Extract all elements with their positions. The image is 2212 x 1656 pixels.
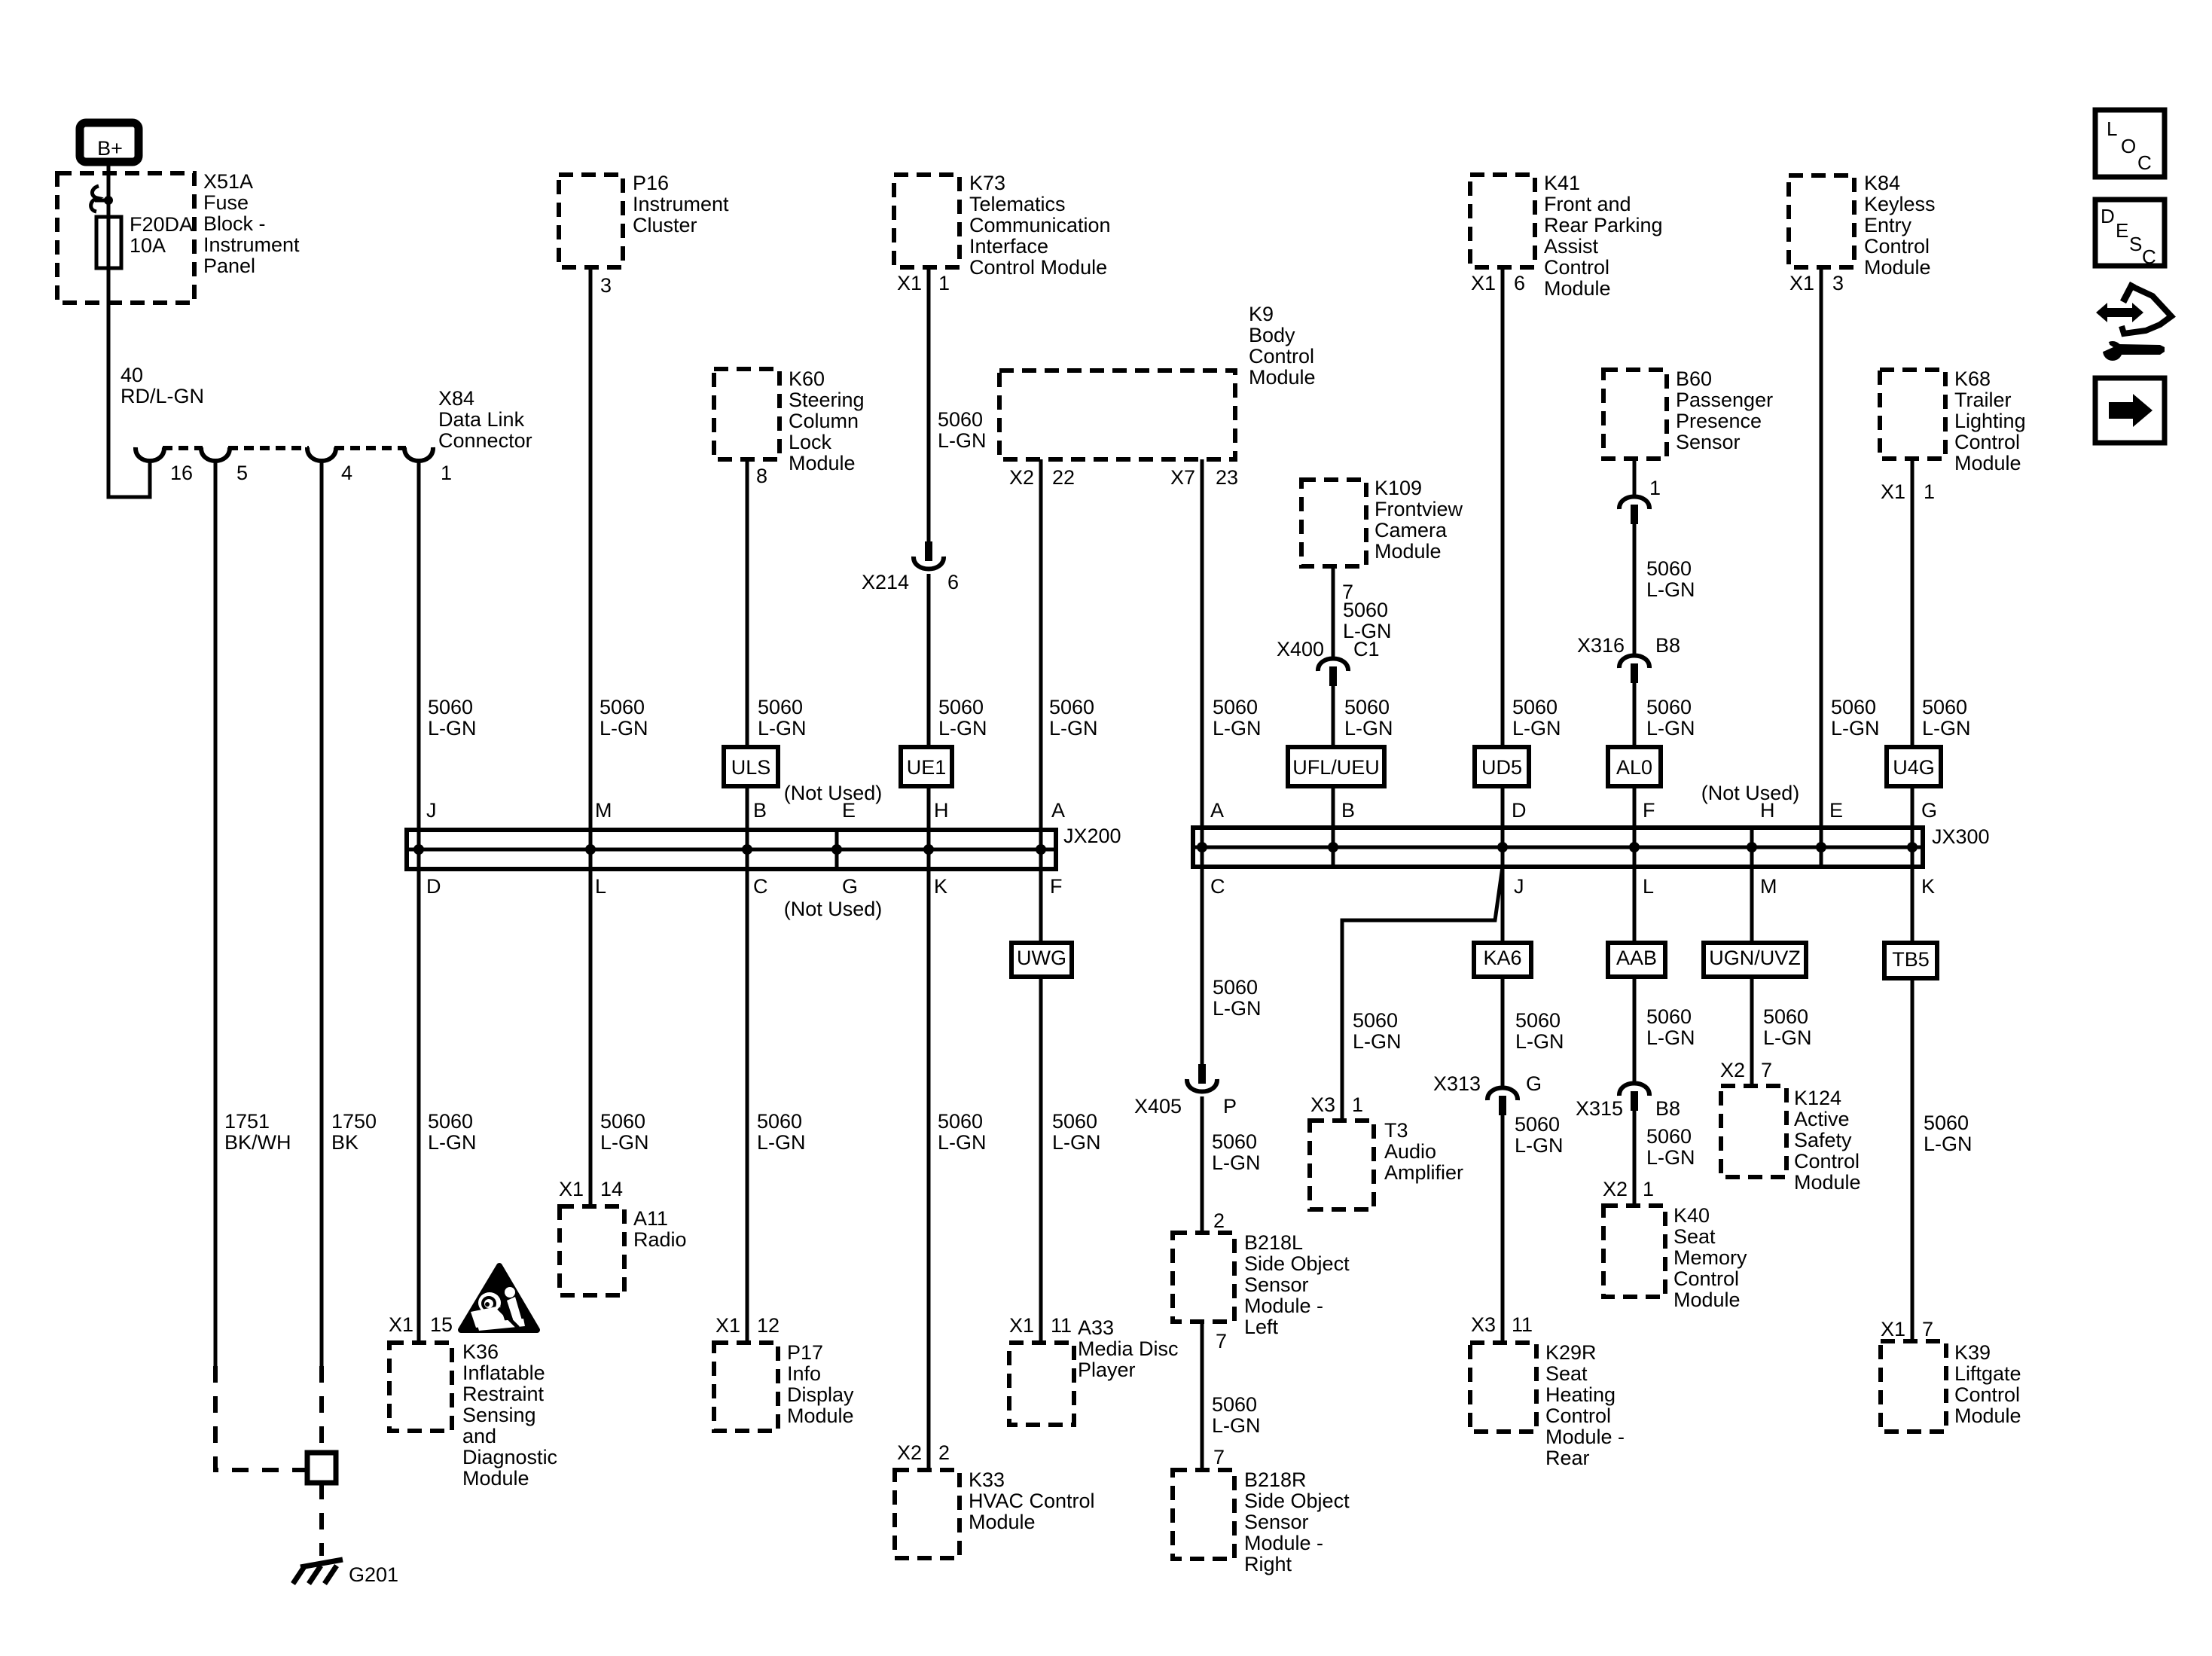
- module K29R Seat Heating Control Module - Rear dashed box: [1470, 1343, 1536, 1432]
- module A11 Radio dashed box: [560, 1206, 624, 1295]
- svg-text:Control: Control: [1954, 1383, 2020, 1406]
- svg-text:P: P: [1223, 1095, 1237, 1118]
- ground G201 symbol: [301, 1560, 343, 1567]
- svg-text:M: M: [1760, 875, 1777, 898]
- svg-text:22: 22: [1052, 466, 1075, 489]
- svg-text:X214: X214: [862, 571, 909, 593]
- svg-text:K: K: [1921, 875, 1935, 898]
- wire from X214 to JX200 H: [927, 574, 931, 830]
- svg-text:D: D: [426, 875, 441, 898]
- wire 1750 BK from X84 pin 4: [320, 462, 324, 1366]
- svg-text:1750: 1750: [331, 1110, 377, 1133]
- svg-text:Safety: Safety: [1794, 1129, 1852, 1151]
- svg-text:Sensing: Sensing: [462, 1404, 536, 1426]
- wire from K9 X2-22 to JX200 A: [1039, 459, 1043, 830]
- inline connector X315 pin B8: [1619, 1084, 1649, 1096]
- junction dot JX300 D: [1497, 842, 1508, 852]
- svg-text:Info: Info: [787, 1362, 821, 1385]
- svg-text:Sensor: Sensor: [1244, 1273, 1309, 1296]
- svg-text:K60: K60: [789, 367, 825, 390]
- JX200 stub A: [1039, 830, 1043, 869]
- inline connector X400 pin C1: [1318, 659, 1348, 672]
- svg-text:L-GN: L-GN: [1212, 1414, 1261, 1437]
- net label box UFL/UEU: [1288, 747, 1384, 786]
- JX300 stub D: [1501, 828, 1505, 867]
- svg-text:K9: K9: [1249, 303, 1274, 325]
- svg-text:L-GN: L-GN: [1353, 1030, 1402, 1053]
- svg-text:7: 7: [1216, 1330, 1227, 1353]
- svg-text:X1: X1: [1009, 1314, 1034, 1337]
- svg-text:L-GN: L-GN: [600, 1131, 649, 1154]
- wire from K84 to JX300 E: [1820, 267, 1823, 828]
- svg-text:1751: 1751: [224, 1110, 270, 1133]
- svg-text:5060: 5060: [1213, 976, 1258, 999]
- svg-text:Module: Module: [1374, 540, 1442, 563]
- svg-text:Module: Module: [1954, 1404, 2021, 1427]
- svg-text:Entry: Entry: [1864, 214, 1912, 236]
- svg-text:Lock: Lock: [789, 431, 832, 453]
- JX200 stub B: [746, 830, 749, 869]
- svg-text:L-GN: L-GN: [600, 717, 648, 740]
- svg-text:3: 3: [600, 274, 612, 297]
- junction dot in fuse block: [104, 196, 113, 205]
- svg-text:A: A: [1210, 799, 1224, 822]
- svg-text:B218R: B218R: [1244, 1468, 1307, 1491]
- svg-text:Control: Control: [1249, 345, 1314, 367]
- JX300 stub E: [1820, 828, 1823, 867]
- svg-text:Module: Module: [1249, 366, 1316, 389]
- svg-text:Module: Module: [1794, 1171, 1861, 1194]
- svg-text:B60: B60: [1676, 367, 1712, 390]
- svg-text:7: 7: [1213, 1446, 1225, 1468]
- svg-text:Interface: Interface: [969, 235, 1048, 258]
- svg-text:Restraint: Restraint: [462, 1383, 545, 1405]
- svg-text:D: D: [1512, 799, 1527, 822]
- fuse F20DA 10A: [96, 217, 121, 268]
- wire 1751 BK/WH from X84 pin 5: [214, 462, 218, 1366]
- module K39 Liftgate Control Module dashed box: [1881, 1341, 1946, 1432]
- module P16 Instrument Cluster dashed box: [559, 175, 623, 267]
- connector X84 pin 1 cup: [404, 447, 433, 461]
- svg-text:K68: K68: [1954, 367, 1991, 390]
- JX200 stub M: [589, 830, 593, 869]
- svg-text:C: C: [753, 875, 768, 898]
- svg-text:7: 7: [1922, 1318, 1933, 1340]
- svg-text:K40: K40: [1673, 1204, 1710, 1227]
- svg-text:F20DA: F20DA: [130, 213, 193, 236]
- svg-text:X3: X3: [1310, 1093, 1335, 1116]
- svg-text:5060: 5060: [1212, 1130, 1257, 1153]
- junction dot JX200 M: [585, 844, 596, 855]
- junction block JX300 bus bar: [1193, 828, 1923, 867]
- svg-text:5060: 5060: [757, 1110, 802, 1133]
- svg-text:Lighting: Lighting: [1954, 410, 2026, 432]
- svg-text:5060: 5060: [1922, 696, 1967, 718]
- hidden wire 1750 to splice: [319, 1366, 324, 1453]
- junction block JX200 bus bar: [407, 830, 1056, 869]
- svg-text:Inflatable: Inflatable: [462, 1362, 545, 1384]
- connector X84 pin 5 cup: [201, 447, 230, 461]
- svg-text:KA6: KA6: [1483, 947, 1521, 969]
- svg-text:Control: Control: [1544, 256, 1609, 279]
- wire from X313 to K29R: [1501, 1115, 1505, 1343]
- wire from K73 to connector X214: [927, 267, 931, 543]
- hidden wire splice to ground: [319, 1483, 324, 1556]
- svg-text:X3: X3: [1471, 1313, 1496, 1336]
- net label box UGN/UVZ: [1704, 943, 1806, 977]
- net label box AL0: [1608, 747, 1661, 786]
- svg-text:E: E: [1829, 799, 1843, 822]
- module K33 HVAC Control Module dashed box: [895, 1470, 960, 1558]
- wire from K109 to connector X400: [1332, 566, 1335, 658]
- svg-text:L-GN: L-GN: [1646, 1026, 1695, 1049]
- svg-text:L-GN: L-GN: [1512, 717, 1561, 740]
- net label box UE1: [901, 747, 952, 786]
- svg-text:Control: Control: [1864, 235, 1930, 258]
- wire from B218L to B218R: [1201, 1322, 1204, 1470]
- svg-text:Control: Control: [1545, 1404, 1611, 1427]
- legend icon LOC box: [2095, 110, 2165, 177]
- wire JX300 J to KA6 and K29R: [1501, 867, 1505, 1087]
- svg-text:1: 1: [938, 272, 950, 294]
- svg-text:16: 16: [170, 462, 193, 484]
- svg-text:6: 6: [947, 571, 959, 593]
- svg-text:Connector: Connector: [438, 429, 532, 452]
- svg-text:K29R: K29R: [1545, 1341, 1597, 1364]
- svg-text:Rear: Rear: [1545, 1447, 1590, 1469]
- wire JX300 M to K124: [1750, 867, 1754, 1086]
- svg-text:X405: X405: [1134, 1095, 1182, 1118]
- svg-text:Module: Module: [1864, 256, 1931, 279]
- svg-text:Instrument: Instrument: [633, 193, 729, 215]
- wire from B+ through fuse down to X84 pin 16: [108, 164, 150, 497]
- svg-text:Side Object: Side Object: [1244, 1252, 1350, 1275]
- svg-text:X2: X2: [1720, 1059, 1745, 1081]
- svg-text:Telematics: Telematics: [969, 193, 1066, 215]
- splice block: [307, 1453, 336, 1483]
- svg-text:8: 8: [756, 465, 767, 487]
- svg-text:C: C: [2142, 246, 2156, 268]
- svg-text:L-GN: L-GN: [1922, 717, 1971, 740]
- svg-text:G201: G201: [349, 1563, 398, 1586]
- JX300 stub G: [1911, 828, 1915, 867]
- svg-text:Cluster: Cluster: [633, 214, 697, 236]
- svg-text:Assist: Assist: [1544, 235, 1599, 258]
- svg-text:K109: K109: [1374, 477, 1422, 499]
- svg-text:X1: X1: [1881, 1318, 1905, 1340]
- junction dot JX200 E: [831, 844, 842, 855]
- svg-text:X1: X1: [715, 1314, 740, 1337]
- svg-text:(Not Used): (Not Used): [784, 898, 883, 920]
- svg-text:5060: 5060: [938, 696, 984, 718]
- module A33 Media Disc Player dashed box: [1009, 1343, 1074, 1425]
- legend icon DESC box: [2095, 200, 2165, 266]
- svg-text:5060: 5060: [1646, 696, 1692, 718]
- svg-text:6: 6: [1514, 272, 1525, 294]
- svg-text:Instrument: Instrument: [203, 233, 300, 256]
- svg-text:Block -: Block -: [203, 212, 266, 235]
- svg-text:A33: A33: [1078, 1316, 1114, 1339]
- svg-text:L-GN: L-GN: [428, 1131, 477, 1154]
- wire from X405 to B218L: [1201, 1096, 1204, 1233]
- svg-text:ULS: ULS: [731, 756, 771, 779]
- inline connector X214 pin 6: [925, 541, 932, 561]
- net label box U4G: [1887, 747, 1941, 786]
- svg-text:Presence: Presence: [1676, 410, 1762, 432]
- svg-text:L-GN: L-GN: [1515, 1030, 1564, 1053]
- svg-text:L-GN: L-GN: [1515, 1134, 1564, 1157]
- svg-text:BK/WH: BK/WH: [224, 1131, 291, 1154]
- svg-text:23: 23: [1216, 466, 1238, 489]
- svg-text:P17: P17: [787, 1341, 823, 1364]
- svg-text:11: 11: [1051, 1314, 1072, 1337]
- svg-text:L-GN: L-GN: [938, 717, 987, 740]
- svg-text:Module: Module: [1954, 452, 2021, 474]
- svg-text:5060: 5060: [1212, 1393, 1257, 1416]
- svg-text:Module: Module: [789, 452, 856, 474]
- svg-text:5060: 5060: [1646, 1005, 1692, 1028]
- svg-text:X1: X1: [897, 272, 922, 294]
- svg-text:B218L: B218L: [1244, 1231, 1303, 1254]
- module K109 Frontview Camera Module dashed box: [1301, 480, 1366, 566]
- wire from X315 to K40: [1633, 1111, 1637, 1206]
- module K40 Seat Memory Control Module dashed box: [1603, 1206, 1665, 1297]
- svg-text:5060: 5060: [938, 1110, 983, 1133]
- svg-text:Diagnostic: Diagnostic: [462, 1446, 557, 1468]
- svg-text:5060: 5060: [1515, 1113, 1560, 1136]
- svg-text:L-GN: L-GN: [1646, 1146, 1695, 1169]
- svg-text:L-GN: L-GN: [428, 717, 477, 740]
- svg-text:P16: P16: [633, 172, 669, 194]
- svg-text:X7: X7: [1170, 466, 1195, 489]
- svg-text:Right: Right: [1244, 1553, 1292, 1575]
- svg-text:BK: BK: [331, 1131, 358, 1154]
- svg-text:Radio: Radio: [633, 1228, 687, 1251]
- svg-text:5060: 5060: [1924, 1112, 1969, 1134]
- svg-text:1: 1: [1352, 1093, 1363, 1116]
- module K84 Keyless Entry Control Module dashed box: [1789, 175, 1854, 267]
- svg-text:Control: Control: [1954, 431, 2020, 453]
- svg-text:UE1: UE1: [907, 756, 947, 779]
- svg-text:40: 40: [121, 364, 143, 386]
- svg-text:X1: X1: [389, 1313, 413, 1336]
- svg-text:Frontview: Frontview: [1374, 498, 1463, 520]
- module K36 Inflatable Restraint SDM dashed box: [389, 1343, 452, 1431]
- JX300 stub A: [1201, 828, 1204, 867]
- svg-text:5060: 5060: [1763, 1005, 1808, 1028]
- JX200 stub H: [927, 830, 931, 869]
- net label box UD5: [1475, 747, 1529, 786]
- junction dot JX200 H: [923, 844, 934, 855]
- svg-text:B: B: [753, 799, 767, 822]
- JX200 stub J: [417, 830, 421, 869]
- svg-text:UFL/UEU: UFL/UEU: [1292, 756, 1380, 779]
- svg-text:3: 3: [1832, 272, 1844, 294]
- svg-text:12: 12: [757, 1314, 780, 1337]
- svg-text:1: 1: [1643, 1178, 1654, 1200]
- svg-text:5060: 5060: [1052, 1110, 1097, 1133]
- svg-text:Body: Body: [1249, 324, 1295, 346]
- svg-text:K84: K84: [1864, 172, 1900, 194]
- svg-text:5060: 5060: [1344, 696, 1390, 718]
- svg-text:Trailer: Trailer: [1954, 389, 2012, 411]
- junction dot JX200 A: [1036, 844, 1046, 855]
- wire from P16 pin 3 to JX200 M: [589, 267, 593, 830]
- svg-text:J: J: [426, 799, 437, 822]
- svg-text:Left: Left: [1244, 1316, 1279, 1338]
- svg-text:L-GN: L-GN: [1344, 717, 1393, 740]
- wire JX300 J branch to T3 audio amplifier: [1342, 867, 1503, 1121]
- svg-text:U4G: U4G: [1893, 756, 1935, 779]
- svg-text:Display: Display: [787, 1383, 854, 1406]
- svg-text:Liftgate: Liftgate: [1954, 1362, 2021, 1385]
- wire from K41 to JX300 D: [1501, 267, 1505, 828]
- svg-text:X1: X1: [1881, 480, 1905, 503]
- svg-text:UWG: UWG: [1017, 947, 1066, 969]
- svg-text:TB5: TB5: [1892, 948, 1930, 971]
- svg-text:10A: 10A: [130, 234, 166, 257]
- junction dot JX300 F: [1629, 842, 1640, 852]
- junction dot JX300 G: [1907, 842, 1918, 852]
- svg-text:K39: K39: [1954, 1341, 1991, 1364]
- svg-text:5060: 5060: [428, 696, 473, 718]
- svg-text:11: 11: [1512, 1313, 1533, 1336]
- svg-text:Heating: Heating: [1545, 1383, 1616, 1406]
- svg-text:Control: Control: [1673, 1267, 1739, 1290]
- svg-text:L-GN: L-GN: [1831, 717, 1880, 740]
- wire JX300 K to K39: [1911, 867, 1915, 1341]
- svg-text:RD/L-GN: RD/L-GN: [121, 385, 204, 407]
- JX300 stub H (not used): [1750, 828, 1754, 867]
- module B218R Side Object Sensor Module - Right dashed box: [1173, 1470, 1234, 1559]
- svg-text:L: L: [595, 875, 606, 898]
- wire JX300 L to K40: [1633, 867, 1637, 1083]
- svg-text:1: 1: [1924, 480, 1935, 503]
- svg-text:K: K: [934, 875, 947, 898]
- svg-text:Player: Player: [1078, 1359, 1136, 1381]
- JX300 stub F: [1633, 828, 1637, 867]
- svg-text:Column: Column: [789, 410, 859, 432]
- svg-text:Amplifier: Amplifier: [1384, 1161, 1463, 1184]
- junction dot JX300 E: [1816, 842, 1826, 852]
- svg-text:5060: 5060: [938, 408, 983, 431]
- svg-text:2: 2: [1213, 1209, 1225, 1232]
- svg-text:Module -: Module -: [1545, 1426, 1625, 1448]
- svg-text:5060: 5060: [1515, 1009, 1561, 1032]
- svg-text:X313: X313: [1433, 1072, 1481, 1095]
- legend icon schematic reference (arrows and wrench): [2096, 303, 2143, 322]
- connector X84 dashed line: [163, 446, 203, 450]
- svg-text:Steering: Steering: [789, 389, 865, 411]
- svg-text:Audio: Audio: [1384, 1140, 1436, 1163]
- svg-text:K41: K41: [1544, 172, 1580, 194]
- svg-text:X84: X84: [438, 387, 474, 410]
- svg-text:5060: 5060: [1213, 696, 1258, 718]
- net label box AAB: [1608, 943, 1665, 977]
- svg-text:L: L: [1643, 875, 1654, 898]
- hidden wire 1751 to splice: [215, 1366, 305, 1470]
- svg-text:X1: X1: [1471, 272, 1496, 294]
- svg-text:and: and: [462, 1425, 496, 1447]
- svg-text:C1: C1: [1353, 638, 1380, 660]
- svg-text:X400: X400: [1277, 638, 1324, 660]
- svg-text:5060: 5060: [758, 696, 803, 718]
- svg-text:K33: K33: [969, 1468, 1005, 1491]
- svg-text:L-GN: L-GN: [1213, 717, 1262, 740]
- svg-text:Front and: Front and: [1544, 193, 1631, 215]
- svg-text:Keyless: Keyless: [1864, 193, 1936, 215]
- module K124 Active Safety Control Module dashed box: [1721, 1086, 1786, 1177]
- svg-text:F: F: [1050, 875, 1063, 898]
- svg-text:L-GN: L-GN: [938, 429, 987, 452]
- svg-text:Panel: Panel: [203, 255, 255, 277]
- svg-text:Memory: Memory: [1673, 1246, 1747, 1269]
- module T3 Audio Amplifier dashed box: [1310, 1121, 1374, 1209]
- svg-text:G: G: [842, 875, 858, 898]
- junction dot JX300 B: [1328, 842, 1338, 852]
- svg-text:L-GN: L-GN: [1646, 578, 1695, 601]
- wire JX200 K to K33: [927, 869, 931, 1470]
- svg-text:Camera: Camera: [1374, 519, 1448, 541]
- svg-text:Module -: Module -: [1244, 1532, 1323, 1554]
- svg-text:JX300: JX300: [1932, 825, 1990, 848]
- svg-text:A: A: [1051, 799, 1065, 822]
- svg-text:L: L: [2107, 117, 2117, 140]
- svg-text:7: 7: [1761, 1059, 1772, 1081]
- svg-text:L-GN: L-GN: [1924, 1133, 1972, 1155]
- svg-text:X2: X2: [1009, 466, 1034, 489]
- inline connector below B60: [1633, 459, 1637, 496]
- svg-text:Control Module: Control Module: [969, 256, 1107, 279]
- svg-text:5060: 5060: [1831, 696, 1876, 718]
- svg-text:5060: 5060: [600, 1110, 645, 1133]
- svg-text:1: 1: [1649, 477, 1661, 499]
- svg-text:X51A: X51A: [203, 170, 253, 193]
- wire JX200 D to K36: [417, 869, 421, 1343]
- module K9 Body Control Module dashed box: [999, 371, 1235, 459]
- svg-text:Module: Module: [969, 1511, 1036, 1533]
- svg-text:K73: K73: [969, 172, 1005, 194]
- net label box TB5: [1884, 943, 1937, 978]
- svg-text:5060: 5060: [1343, 599, 1388, 621]
- svg-text:5060: 5060: [600, 696, 645, 718]
- inline connector X313 pin G: [1487, 1088, 1518, 1101]
- wire from K9 X7-23 to JX300 A: [1201, 459, 1204, 828]
- svg-text:J: J: [1514, 875, 1524, 898]
- svg-text:AAB: AAB: [1616, 947, 1657, 969]
- JX300 stub B: [1332, 828, 1335, 867]
- svg-text:UGN/UVZ: UGN/UVZ: [1709, 947, 1801, 969]
- svg-text:JX200: JX200: [1063, 825, 1121, 847]
- svg-text:S: S: [2129, 233, 2142, 255]
- wire from X400 to JX300 B: [1332, 686, 1335, 828]
- svg-text:Module: Module: [787, 1404, 854, 1427]
- svg-text:X2: X2: [897, 1441, 922, 1464]
- svg-text:1: 1: [441, 462, 452, 484]
- svg-text:A11: A11: [633, 1207, 668, 1230]
- power symbol B+: [80, 123, 139, 162]
- svg-text:K124: K124: [1794, 1087, 1841, 1109]
- svg-text:Sensor: Sensor: [1676, 431, 1741, 453]
- svg-text:2: 2: [938, 1441, 950, 1464]
- svg-text:L-GN: L-GN: [1212, 1151, 1261, 1174]
- wire from B60 to connector X316: [1633, 524, 1637, 655]
- svg-text:Module: Module: [462, 1467, 529, 1490]
- svg-text:Module: Module: [1673, 1289, 1741, 1311]
- svg-text:C: C: [2137, 151, 2152, 174]
- svg-text:Rear Parking: Rear Parking: [1544, 214, 1663, 236]
- svg-text:5060: 5060: [1049, 696, 1094, 718]
